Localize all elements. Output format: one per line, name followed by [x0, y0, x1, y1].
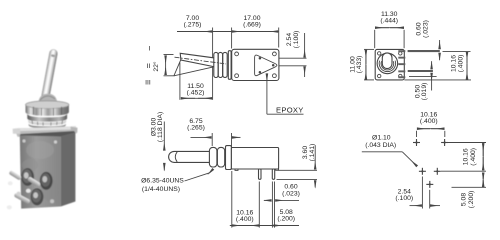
svg-text:(.400): (.400) [470, 148, 477, 166]
svg-text:(.669): (.669) [243, 22, 261, 29]
insulator+pin 3 [31, 188, 44, 205]
lever (horizontal) [169, 151, 215, 162]
svg-text:(.400): (.400) [236, 216, 254, 223]
svg-text:I: I [149, 46, 151, 53]
svg-text:III: III [145, 79, 151, 86]
svg-text:10.16: 10.16 [463, 148, 470, 165]
left foot [235, 169, 238, 170]
mounting plate [15, 126, 78, 137]
svg-text:(.452): (.452) [187, 90, 205, 97]
svg-text:(.400): (.400) [458, 55, 465, 73]
svg-text:(.043 DIA): (.043 DIA) [365, 142, 396, 149]
bushing rings [214, 52, 218, 77]
dim 2.54 right [304, 33, 306, 57]
svg-text:(.275): (.275) [184, 22, 202, 29]
extension lines [231, 171, 233, 228]
svg-text:II: II [147, 63, 151, 70]
svg-text:(.444): (.444) [380, 17, 398, 24]
svg-text:(.100): (.100) [293, 31, 300, 49]
pins right [408, 50, 440, 52]
washers [27, 114, 67, 122]
svg-text:(.265): (.265) [187, 125, 205, 132]
base dome [38, 94, 57, 105]
svg-text:(.200): (.200) [277, 216, 295, 223]
rivet holes [235, 52, 239, 56]
pins [259, 169, 262, 179]
angle arrows [165, 56, 167, 74]
svg-text:(.433): (.433) [356, 56, 363, 74]
lever sweep fan [174, 60, 181, 76]
svg-text:(.023): (.023) [282, 190, 300, 197]
switch body (side view) [232, 49, 279, 80]
wire extension lines [212, 28, 214, 100]
body side face [61, 133, 76, 207]
top body shadow [20, 131, 76, 137]
wire dim line 7.00/17.00 [177, 31, 278, 33]
svg-text:(.118 DIA): (.118 DIA) [157, 112, 164, 142]
svg-text:(.023): (.023) [422, 20, 429, 38]
svg-text:(1/4-40UNS): (1/4-40UNS) [142, 186, 180, 193]
bushing circles [377, 53, 398, 74]
body front face [20, 136, 61, 209]
rivets [17, 192, 21, 196]
svg-text:Ø1.10: Ø1.10 [372, 135, 391, 142]
bushing rings [209, 147, 217, 167]
body front [375, 49, 404, 80]
svg-text:(.400): (.400) [420, 118, 438, 125]
svg-text:10.16: 10.16 [450, 55, 457, 72]
svg-text:Ø6.35-40UNS: Ø6.35-40UNS [141, 177, 184, 184]
dim 11.50 [179, 63, 181, 100]
svg-text:(.100): (.100) [395, 195, 413, 202]
mottles [26, 141, 54, 159]
svg-text:5.08: 5.08 [461, 193, 468, 206]
lever centerline [175, 57, 226, 64]
hex nut [26, 101, 69, 109]
svg-text:EPOXY: EPOXY [276, 105, 304, 114]
insulator+pin 1 [21, 168, 34, 186]
svg-text:(.200): (.200) [468, 191, 475, 209]
svg-text:22°: 22° [152, 61, 160, 72]
holes pattern [413, 139, 448, 188]
lever [41, 49, 58, 102]
bottom dim line [230, 225, 299, 227]
svg-text:(.019): (.019) [421, 83, 428, 101]
switch body [231, 148, 278, 170]
lever (position I) [180, 53, 218, 67]
terminal dots [259, 57, 262, 60]
epoxy seal outline [255, 55, 277, 76]
lever pill [382, 53, 392, 69]
pin stubs [398, 50, 405, 52]
insulator+pin 2 [40, 172, 53, 190]
EPOXY label [266, 74, 268, 115]
